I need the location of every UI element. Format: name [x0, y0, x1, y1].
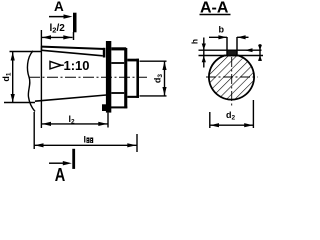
svg-text:l: l: [84, 135, 87, 145]
svg-text:1:10: 1:10: [64, 58, 90, 73]
svg-text:A: A: [54, 0, 64, 14]
svg-text:l2/2: l2/2: [50, 23, 66, 35]
svg-text:b: b: [219, 24, 225, 34]
svg-text:h: h: [189, 39, 199, 44]
svg-text:A: A: [55, 164, 66, 182]
